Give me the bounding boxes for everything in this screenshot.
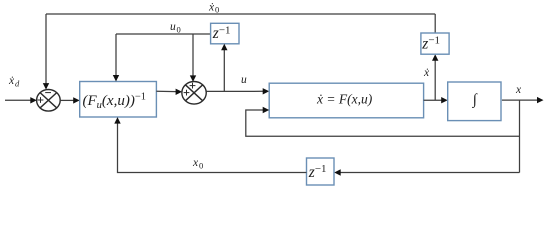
block U1: (Fu(x,u))^-1 inverse model [80,82,157,118]
wire: S1 output to block U1 [60,97,79,103]
delay block U6: z^-1 bottom [307,158,335,185]
wire: u0 vertical into top of block U1 [113,34,119,82]
wire: arrow into U4 lower input [263,107,270,113]
svg-text:0: 0 [177,25,181,35]
wire: xdot branch up into z-1 U3 [432,54,438,100]
label xdot0 [208,2,219,15]
wire: vertical from z-1 U3 top to xdot0 line [434,14,436,33]
wire: xdot0 left vertical into summer S1 [43,14,49,90]
wire: x feedback vertical right side [519,100,521,172]
wire: input xdot_d into summer S1 [5,97,37,103]
label xdot_d input [8,75,20,89]
label x0 [192,157,203,171]
block U5: integrator [448,82,501,121]
svg-text:0: 0 [199,161,203,171]
summing junction S1 [37,90,61,112]
svg-text:ẋ: ẋ [423,67,430,79]
sign plus on S2 top [190,83,196,89]
svg-text:u: u [241,74,247,86]
block U4: plant xdot = F(x,u) [269,83,423,118]
sign plus on S2 left [184,90,190,96]
wire: x feedback mid horizontal to U4 lower input [246,110,520,136]
svg-text:u: u [170,21,176,33]
delay block U2: z^-1 top middle [211,23,239,44]
delay block U3: z^-1 top right [421,33,449,54]
wire: u signal from S2 to plant block U4 [206,88,269,94]
wire: u0 vertical into top of summer S2 [190,34,196,82]
sign plus on S1 left [38,97,44,103]
wire: u0 feedback horizontal from z-1 U2 [116,33,211,35]
wire: U1 output into summer S2 [156,89,182,95]
wire: u branch up into z-1 U2 [221,44,227,92]
wire: xdot0 top feedback horizontal [46,13,435,15]
svg-text:x: x [192,157,199,169]
wire: xdot from U4 to integrator U5 [424,97,448,103]
label xdot [423,67,430,79]
svg-text:0: 0 [215,5,219,15]
summing junction S2 [182,82,206,105]
label x output [515,84,522,96]
wire: x0 line from U6 to bottom of U1 [114,117,306,172]
wire: x output from integrator [502,97,544,103]
label u0 [170,21,181,35]
svg-text:ẋ: ẋ [208,2,215,14]
svg-text:ẋ: ẋ [8,75,15,87]
sign minus on S1 top [45,92,51,94]
label u [241,74,247,86]
wire: bottom x line into z-1 U6 [334,169,519,175]
svg-text:ẋ = F(x,u): ẋ = F(x,u) [316,92,373,107]
svg-text:x: x [515,84,522,96]
